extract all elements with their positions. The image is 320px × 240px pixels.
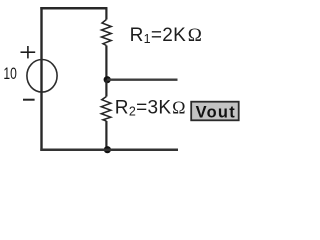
svg-text:R2=3KΩ: R2=3KΩ (115, 97, 186, 118)
voltage source V1 (10V) (27, 60, 57, 93)
node A (junction of R1/R2/Vout wire) (104, 76, 111, 83)
wire R2 bottom stub (105, 121, 107, 150)
plus polarity mark (21, 46, 36, 58)
svg-text:10: 10 (3, 65, 16, 83)
wire middle horizontal to Vout (107, 79, 178, 81)
wire R1 bottom stub (105, 46, 107, 80)
minus polarity mark (23, 99, 35, 101)
wire top horizontal (40, 7, 107, 10)
svg-text:R1=2KΩ: R1=2KΩ (130, 25, 203, 46)
wire R2 top stub (105, 80, 107, 97)
resistor R1 zigzag (102, 20, 112, 46)
node B (bottom junction) (104, 146, 111, 153)
svg-text:Vout: Vout (196, 103, 236, 121)
Vout label box (191, 102, 239, 122)
wire bottom horizontal (40, 149, 178, 152)
wire left vertical (40, 7, 42, 151)
wire R1 top stub (105, 8, 107, 20)
resistor R2 zigzag (101, 97, 111, 122)
